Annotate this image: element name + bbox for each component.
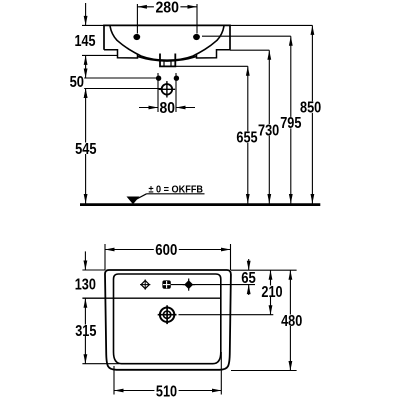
svg-text:600: 600 [155,242,177,259]
dimension 65 [241,259,256,295]
height leader lines 655 730 795 850 [175,25,312,66]
fixing dots [156,76,179,81]
svg-text:510: 510 [156,383,177,400]
dimension 795 [279,36,303,203]
svg-text:655: 655 [236,130,257,147]
floor level label +0 = OKFFB [127,184,205,204]
svg-text:315: 315 [75,323,96,340]
dimension 480 [280,270,304,370]
rim curve inner bottom band [138,57,196,61]
svg-text:850: 850 [300,100,321,117]
bowl back edge line [82,297,220,299]
centre tap hole (punched, filled square) [162,280,170,288]
washbasin plan outer outline [105,270,231,370]
drain symbol (plan view) [158,305,177,324]
floor line [80,203,320,206]
svg-text:50: 50 [70,74,84,91]
dimension 510 [114,352,222,400]
dimension 280 (tap hole spacing) [137,0,197,33]
svg-text:480: 480 [281,313,302,330]
svg-text:795: 795 [280,115,301,132]
dimension 210 [260,270,284,315]
svg-text:730: 730 [258,122,279,139]
dimension 850 [299,25,323,203]
dimension 545 (floor to drain) [74,89,98,204]
drain fitting below basin [160,54,175,67]
svg-text:145: 145 [75,33,96,50]
drain crosshair (front view) [159,81,175,97]
dimension 730 [257,50,281,203]
left auxiliary tap hole (diamond outline) [140,279,150,289]
svg-text:280: 280 [155,0,179,16]
washbasin plan inner rim outline [114,274,221,364]
svg-text:210: 210 [261,284,282,301]
washbasin front elevation outline [104,25,230,58]
dimension 655 [235,66,259,203]
svg-text:545: 545 [75,141,97,158]
dimension 600 (basin width) [105,242,231,270]
dimension 145 (basin height) [75,3,119,78]
right tap hole (front view) [193,34,200,40]
svg-text:65: 65 [241,270,256,287]
plan left extension lines [82,270,119,364]
washbasin front rim curve [110,26,224,60]
right auxiliary tap hole (filled diamond) [183,279,195,291]
svg-text:80: 80 [160,100,176,117]
dimension 315 [74,298,98,364]
left tap hole (front view) [133,34,140,40]
svg-text:130: 130 [75,277,96,294]
dimension 80 (drain hole spacing) [139,73,195,117]
plan right leader lines [171,270,297,370]
dimension 50 (fixing to drain) [70,74,162,98]
dimension 130 [75,251,96,293]
